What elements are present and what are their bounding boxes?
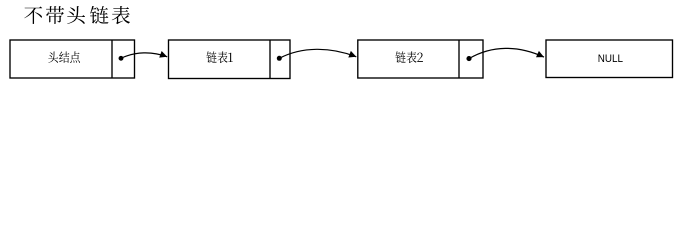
label 头结点 (N1 data field) (48, 51, 80, 63)
pointer-field divider of N1 (head node 头结点) (111, 40, 113, 78)
wire: curved arrow N3 -> NULL (469, 48, 544, 58)
node box N1 (head node 头结点) (10, 40, 135, 78)
pointer-field divider of N2 (链表1) (269, 40, 271, 79)
pointer dot of N3 (466, 56, 471, 61)
pointer-field divider of N3 (链表2) (458, 40, 460, 78)
node box NULL terminator (546, 40, 673, 78)
pointer dot of N2 (277, 56, 282, 61)
svg-text:NULL: NULL (598, 53, 623, 65)
label NULL (598, 53, 623, 65)
wire: curved arrow N1 -> N2 (121, 51, 167, 58)
pointer dot of N1 (119, 56, 124, 61)
wire: curved arrow N2 -> N3 (279, 49, 356, 58)
node box N3 (链表2) (358, 40, 483, 78)
label 链表1 (N2 data field) (206, 51, 232, 63)
title text 不带头链表 (24, 6, 130, 24)
label 链表2 (N3 data field) (395, 51, 422, 63)
node box N2 (链表1) (169, 40, 291, 79)
